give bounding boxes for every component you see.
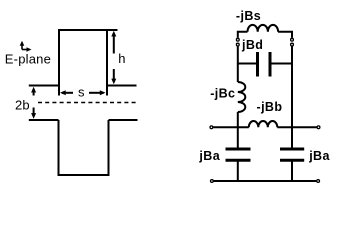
svg-text:-jBb: -jBb	[257, 100, 283, 114]
svg-text:jBa: jBa	[198, 149, 220, 163]
svg-text:-jBs: -jBs	[236, 9, 261, 23]
svg-text:jBd: jBd	[241, 38, 263, 52]
svg-text:E-plane: E-plane	[5, 51, 51, 66]
svg-text:s: s	[78, 85, 85, 100]
svg-text:2b: 2b	[15, 98, 30, 113]
svg-text:-jBc: -jBc	[210, 86, 235, 100]
svg-text:jBa: jBa	[308, 149, 330, 163]
svg-text:h: h	[118, 51, 125, 66]
